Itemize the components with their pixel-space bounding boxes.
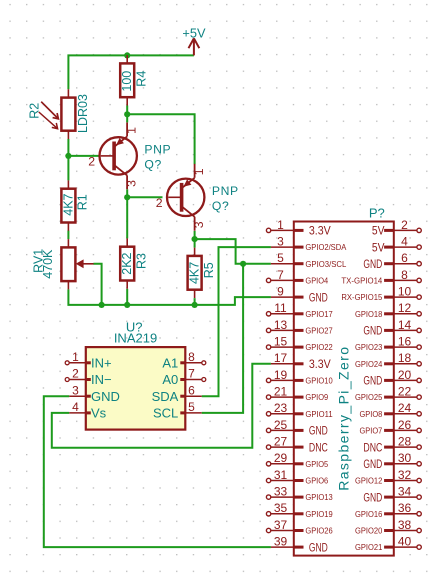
node R5/rail junction — [192, 302, 198, 308]
pin 23 GPIO11 (P?) — [266, 401, 333, 419]
svg-text:GPIO16: GPIO16 — [355, 509, 383, 519]
pin 39 GND (P?) — [271, 535, 328, 555]
connector P? Raspberry_Pi_Zero — [294, 206, 394, 556]
pin 2 IN− (U1) — [65, 367, 111, 387]
svg-text:1: 1 — [125, 127, 139, 134]
svg-text:GND: GND — [309, 542, 328, 554]
svg-text:GPIO6: GPIO6 — [305, 476, 328, 486]
pin 10 RX-GPIO15 (P?) — [341, 284, 421, 302]
pin 3 GND (U1) — [69, 383, 120, 403]
svg-text:GND: GND — [363, 459, 382, 471]
svg-text:23: 23 — [274, 401, 288, 415]
wire R4 bottom — [126, 106, 128, 115]
svg-text:GPIO19: GPIO19 — [305, 509, 333, 519]
svg-text:5V: 5V — [372, 242, 385, 254]
svg-text:INA219: INA219 — [114, 330, 157, 345]
svg-text:TX-GPIO14: TX-GPIO14 — [341, 276, 382, 286]
svg-text:38: 38 — [398, 518, 412, 532]
svg-text:GPIO8: GPIO8 — [360, 409, 383, 419]
svg-text:LDR03: LDR03 — [76, 94, 90, 133]
svg-text:29: 29 — [274, 451, 288, 465]
node SCL junction — [240, 261, 246, 267]
svg-text:18: 18 — [398, 351, 412, 365]
pin 6 SDA (U1) — [152, 383, 202, 403]
pin 19 GPIO10 (P?) — [266, 368, 333, 386]
svg-text:IN+: IN+ — [91, 355, 112, 370]
svg-text:1: 1 — [72, 350, 79, 364]
transistor Q1 PNP — [88, 123, 171, 190]
pin 21 GPIO9 (P?) — [266, 385, 328, 403]
svg-text:GPIO3/SCL: GPIO3/SCL — [305, 259, 346, 269]
svg-text:1: 1 — [192, 168, 206, 175]
svg-text:3: 3 — [125, 180, 139, 187]
svg-text:GPIO27: GPIO27 — [305, 326, 333, 336]
svg-text:GPIO23: GPIO23 — [355, 342, 383, 352]
wire Vs to pin 17 — [52, 364, 271, 448]
svg-text:25: 25 — [274, 418, 288, 432]
svg-text:DNC: DNC — [363, 442, 382, 454]
pin 3 GPIO2/SDA (P?) — [271, 234, 347, 252]
svg-text:7: 7 — [188, 367, 195, 381]
potentiometer RV1 470K — [32, 239, 94, 289]
svg-text:14: 14 — [398, 318, 412, 332]
svg-text:GPIO20: GPIO20 — [355, 526, 383, 536]
svg-text:12: 12 — [398, 301, 412, 315]
node Q1 collector junction — [124, 194, 130, 200]
svg-text:39: 39 — [274, 535, 288, 549]
svg-text:5: 5 — [188, 400, 195, 414]
svg-text:R5: R5 — [202, 262, 216, 278]
resistor R1 — [61, 180, 89, 230]
node Q2 collector junction — [192, 236, 198, 242]
svg-text:GPIO22: GPIO22 — [305, 342, 333, 352]
op-amp U1 INA219 — [86, 320, 186, 430]
svg-text:GPIO24: GPIO24 — [355, 359, 383, 369]
svg-text:32: 32 — [398, 468, 412, 482]
svg-text:GPIO25: GPIO25 — [355, 392, 383, 402]
svg-text:GPIO21: GPIO21 — [355, 542, 383, 552]
svg-text:+5V: +5V — [182, 25, 206, 40]
pin 15 GPIO22 (P?) — [266, 334, 333, 352]
svg-text:8: 8 — [401, 268, 408, 282]
svg-text:GPIO13: GPIO13 — [305, 492, 333, 502]
svg-text:6: 6 — [401, 251, 408, 265]
resistor R2 LDR03 — [28, 89, 90, 139]
pin 4 Vs (U1) — [69, 400, 106, 420]
svg-text:Q?: Q? — [144, 158, 161, 172]
pin 24 GPIO8 (P?) — [360, 401, 422, 419]
svg-text:GND: GND — [363, 376, 382, 388]
svg-text:R4: R4 — [135, 71, 149, 87]
pin 4 5V (P?) — [372, 234, 421, 254]
svg-text:SDA: SDA — [152, 389, 179, 404]
resistor R3 — [120, 238, 148, 288]
wire R1 to RV1 — [67, 231, 69, 240]
svg-text:28: 28 — [398, 435, 412, 449]
transistor Q2 PNP — [156, 164, 239, 231]
svg-text:2: 2 — [156, 196, 163, 210]
pin 16 GPIO23 (P?) — [355, 334, 421, 352]
svg-text:470K: 470K — [41, 249, 55, 279]
svg-text:A0: A0 — [162, 372, 178, 387]
svg-text:33: 33 — [274, 485, 288, 499]
svg-text:GPIO12: GPIO12 — [355, 476, 383, 486]
svg-text:GPIO26: GPIO26 — [305, 526, 333, 536]
wire SDA to pin 3 — [202, 247, 271, 396]
pin 31 GPIO6 (P?) — [266, 468, 328, 486]
wire to Q2 base — [127, 196, 162, 198]
svg-text:3.3V: 3.3V — [309, 359, 331, 371]
wire to Q2 emitter — [127, 114, 194, 164]
node +5V/R4 junction — [124, 52, 130, 58]
wire SCL riser — [202, 264, 243, 413]
node R3/rail junction — [124, 302, 130, 308]
svg-text:26: 26 — [398, 418, 412, 432]
svg-text:GND: GND — [363, 492, 382, 504]
svg-text:30: 30 — [398, 451, 412, 465]
svg-text:7: 7 — [277, 268, 284, 282]
pin 1 IN+ (U1) — [65, 350, 111, 370]
pin 29 GPIO5 (P?) — [266, 451, 328, 469]
pin 27 DNC (P?) — [266, 435, 327, 455]
pin 1 3.3V (P?) — [266, 218, 331, 238]
wire to Q1 emitter — [126, 114, 128, 122]
svg-text:15: 15 — [274, 334, 288, 348]
pin 14 GND (P?) — [363, 318, 421, 338]
wire GND to pin 39 — [44, 396, 271, 547]
wire R3 to rail — [126, 289, 128, 305]
svg-text:9: 9 — [277, 284, 284, 298]
wire Q2 collector to R5 — [194, 231, 196, 248]
wire R5 to rail — [194, 298, 196, 305]
svg-text:RX-GPIO15: RX-GPIO15 — [341, 292, 382, 302]
pin 22 GPIO25 (P?) — [355, 385, 421, 403]
svg-text:R1: R1 — [76, 194, 90, 210]
svg-text:SCL: SCL — [153, 406, 178, 421]
svg-text:R2: R2 — [28, 103, 42, 119]
svg-text:IN−: IN− — [91, 372, 112, 387]
svg-text:4: 4 — [72, 400, 79, 414]
node wiper/rail junction — [99, 302, 105, 308]
wire RV1 wiper to rail — [93, 264, 101, 305]
pin 40 GPIO21 (P?) — [355, 535, 421, 553]
pin 5 GPIO3/SCL (P?) — [271, 251, 347, 269]
wire ground rail to pin 9 — [68, 289, 271, 305]
pin 35 GPIO19 (P?) — [266, 501, 333, 519]
svg-text:3: 3 — [72, 383, 79, 397]
svg-text:GPIO4: GPIO4 — [305, 276, 328, 286]
pin 8 TX-GPIO14 (P?) — [341, 268, 421, 286]
pin 12 GPIO18 (P?) — [355, 301, 421, 319]
svg-text:5: 5 — [277, 251, 284, 265]
svg-text:GPIO9: GPIO9 — [305, 392, 328, 402]
svg-text:20: 20 — [398, 368, 412, 382]
svg-text:37: 37 — [274, 518, 288, 532]
svg-text:GND: GND — [91, 389, 120, 404]
pin 7 GPIO4 (P?) — [266, 268, 328, 286]
svg-text:36: 36 — [398, 501, 412, 515]
svg-text:34: 34 — [398, 485, 412, 499]
wire Q1 collector to R3 — [126, 189, 128, 238]
svg-text:GPIO11: GPIO11 — [305, 409, 333, 419]
svg-text:GND: GND — [309, 426, 328, 438]
svg-text:21: 21 — [274, 385, 288, 399]
svg-text:40: 40 — [398, 535, 412, 549]
svg-text:27: 27 — [274, 435, 288, 449]
resistor R5 — [188, 248, 216, 298]
svg-text:8: 8 — [188, 350, 195, 364]
svg-text:13: 13 — [274, 318, 288, 332]
pin 34 GND (P?) — [363, 485, 421, 505]
svg-text:GPIO17: GPIO17 — [305, 309, 333, 319]
pin 25 GND (P?) — [266, 418, 327, 438]
svg-text:Raspberry_Pi_Zero: Raspberry_Pi_Zero — [336, 346, 352, 491]
svg-text:31: 31 — [274, 468, 288, 482]
svg-text:4K7: 4K7 — [61, 193, 75, 215]
svg-text:1: 1 — [277, 218, 284, 232]
pin 17 3.3V (P?) — [271, 351, 331, 371]
pin 6 GND (P?) — [363, 251, 421, 271]
svg-text:Q?: Q? — [212, 199, 229, 213]
wire to Q1 base — [68, 155, 100, 157]
pin 2 5V (P?) — [372, 218, 421, 238]
svg-text:GND: GND — [363, 259, 382, 271]
svg-text:2: 2 — [401, 218, 408, 232]
pin 37 GPIO26 (P?) — [266, 518, 333, 536]
pin 30 GND (P?) — [363, 451, 421, 471]
pin 7 A0 (U1) — [162, 367, 205, 387]
svg-text:PNP: PNP — [212, 184, 239, 198]
svg-text:4K7: 4K7 — [188, 262, 202, 284]
svg-text:11: 11 — [274, 301, 287, 315]
pin 13 GPIO27 (P?) — [266, 318, 333, 336]
svg-text:5V: 5V — [372, 226, 385, 238]
wire +5V top rail — [68, 55, 193, 89]
svg-text:3.3V: 3.3V — [309, 226, 331, 238]
svg-text:4: 4 — [401, 234, 408, 248]
svg-text:Vs: Vs — [91, 406, 107, 421]
pin 38 GPIO20 (P?) — [355, 518, 421, 536]
pin 18 GPIO24 (P?) — [355, 351, 421, 369]
svg-text:10: 10 — [398, 284, 412, 298]
svg-text:16: 16 — [398, 334, 412, 348]
svg-text:GPIO18: GPIO18 — [355, 309, 383, 319]
svg-text:R3: R3 — [134, 253, 148, 269]
wire Q2 collector to pin 5 — [195, 239, 271, 264]
pin 26 GPIO7 (P?) — [360, 418, 422, 436]
svg-text:A1: A1 — [162, 355, 178, 370]
svg-text:DNC: DNC — [309, 442, 328, 454]
pin 32 GPIO12 (P?) — [355, 468, 421, 486]
resistor R4 — [120, 55, 148, 105]
svg-text:GPIO2/SDA: GPIO2/SDA — [305, 242, 346, 252]
svg-text:3: 3 — [277, 234, 284, 248]
svg-text:100: 100 — [120, 71, 134, 92]
svg-text:PNP: PNP — [144, 143, 171, 157]
power +5V — [182, 25, 206, 55]
wire LDR to R1 — [67, 139, 69, 180]
svg-text:GND: GND — [363, 326, 382, 338]
svg-text:GPIO5: GPIO5 — [305, 459, 328, 469]
pin 9 GND (P?) — [271, 284, 328, 304]
node R4 bottom junction — [124, 111, 130, 117]
pin 11 GPIO17 (P?) — [266, 301, 333, 319]
pin 28 DNC (P?) — [363, 435, 421, 455]
svg-text:GPIO10: GPIO10 — [305, 376, 333, 386]
svg-text:17: 17 — [274, 351, 288, 365]
svg-text:24: 24 — [398, 401, 412, 415]
pin 33 GPIO13 (P?) — [266, 485, 333, 503]
svg-text:35: 35 — [274, 501, 288, 515]
pin 36 GPIO16 (P?) — [355, 501, 421, 519]
svg-text:GPIO7: GPIO7 — [360, 426, 383, 436]
pin 20 GND (P?) — [363, 368, 421, 388]
svg-text:2: 2 — [88, 155, 95, 169]
svg-text:22: 22 — [398, 385, 412, 399]
svg-text:6: 6 — [188, 383, 195, 397]
svg-text:2: 2 — [72, 367, 79, 381]
svg-text:3: 3 — [192, 221, 206, 228]
svg-text:P?: P? — [369, 206, 385, 221]
svg-text:GND: GND — [309, 292, 328, 304]
svg-text:2K2: 2K2 — [120, 252, 134, 274]
pin 5 SCL (U1) — [153, 400, 202, 420]
svg-text:19: 19 — [274, 368, 288, 382]
pin 8 A1 (U1) — [162, 350, 205, 370]
node LDR/base junction — [65, 153, 71, 159]
